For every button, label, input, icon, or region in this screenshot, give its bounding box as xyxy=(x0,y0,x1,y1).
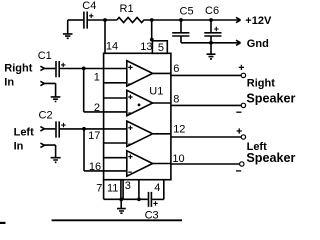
svg-text:10: 10 xyxy=(172,153,184,165)
svg-text:2: 2 xyxy=(94,102,100,114)
svg-text:In: In xyxy=(14,141,24,153)
svg-text:1: 1 xyxy=(94,72,100,84)
svg-text:U1: U1 xyxy=(149,86,163,98)
svg-text:4: 4 xyxy=(154,182,160,194)
svg-text:8: 8 xyxy=(173,94,179,106)
svg-text:5: 5 xyxy=(158,42,164,54)
svg-text:R1: R1 xyxy=(120,3,134,15)
svg-text:7: 7 xyxy=(96,183,102,195)
svg-text:13: 13 xyxy=(140,41,152,53)
svg-text:Gnd: Gnd xyxy=(247,38,269,50)
svg-text:Right: Right xyxy=(4,63,32,75)
svg-text:12: 12 xyxy=(173,124,185,136)
svg-text:11: 11 xyxy=(107,182,118,194)
svg-text:In: In xyxy=(4,77,14,89)
svg-text:C6: C6 xyxy=(205,5,219,17)
svg-text:C3: C3 xyxy=(145,210,159,222)
svg-text:C2: C2 xyxy=(39,110,53,122)
svg-text:Left: Left xyxy=(14,126,34,138)
svg-text:16: 16 xyxy=(89,161,101,173)
svg-text:C1: C1 xyxy=(38,50,52,62)
svg-text:6: 6 xyxy=(173,63,179,75)
svg-text:+12V: +12V xyxy=(245,15,272,27)
svg-text:C5: C5 xyxy=(180,6,194,18)
svg-text:Right: Right xyxy=(247,78,275,90)
svg-text:C4: C4 xyxy=(82,0,96,12)
svg-text:17: 17 xyxy=(88,130,100,142)
svg-text:Speaker: Speaker xyxy=(246,151,295,165)
svg-text:Speaker: Speaker xyxy=(246,91,295,105)
svg-text:3: 3 xyxy=(125,180,131,192)
svg-text:14: 14 xyxy=(106,41,118,53)
